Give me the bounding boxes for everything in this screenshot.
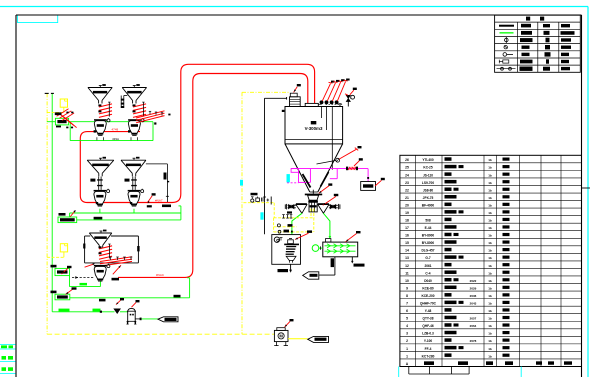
svg-text:2022: 2022 <box>470 279 477 283</box>
svg-text:QHF-46: QHF-46 <box>422 324 434 328</box>
svg-text:JS8-80: JS8-80 <box>423 188 434 192</box>
svg-text:1b: 1b <box>488 203 492 207</box>
svg-text:1b: 1b <box>488 347 492 351</box>
svg-text:4749: 4749 <box>112 127 119 131</box>
svg-text:15: 15 <box>405 241 409 245</box>
svg-text:12: 12 <box>405 264 409 268</box>
svg-text:18: 18 <box>405 219 409 223</box>
svg-text:QTY-38: QTY-38 <box>423 317 434 321</box>
svg-text:Y-48: Y-48 <box>425 309 432 313</box>
svg-text:E-44: E-44 <box>425 226 432 230</box>
svg-text:1: 1 <box>406 347 408 351</box>
svg-text:5: 5 <box>406 317 408 321</box>
svg-text:1b: 1b <box>488 241 492 245</box>
svg-text:3: 3 <box>406 332 408 336</box>
svg-text:1b: 1b <box>488 339 492 343</box>
svg-text:JS-110: JS-110 <box>423 173 433 177</box>
svg-text:23: 23 <box>405 181 409 185</box>
svg-text:Y-100: Y-100 <box>424 339 433 343</box>
svg-text:KCT-280: KCT-280 <box>422 354 435 358</box>
svg-text:2064: 2064 <box>470 324 477 328</box>
svg-text:2036: 2036 <box>470 294 477 298</box>
svg-text:LZB-0.3: LZB-0.3 <box>422 332 434 336</box>
svg-text:1b: 1b <box>488 264 492 268</box>
svg-text:24: 24 <box>405 173 409 177</box>
svg-text:17: 17 <box>405 226 409 230</box>
svg-text:1b: 1b <box>488 332 492 336</box>
svg-text:BF-4000: BF-4000 <box>422 203 435 207</box>
svg-text:1b: 1b <box>488 317 492 321</box>
svg-text:13: 13 <box>405 256 409 260</box>
svg-text:2029: 2029 <box>470 286 477 290</box>
svg-text:KCE-200: KCE-200 <box>421 294 434 298</box>
svg-text:2043: 2043 <box>470 301 477 305</box>
svg-text:14: 14 <box>405 249 409 253</box>
svg-text:2: 2 <box>406 339 408 343</box>
svg-text:19: 19 <box>405 211 409 215</box>
svg-text:10: 10 <box>405 279 409 283</box>
svg-text:1b: 1b <box>488 309 492 313</box>
svg-text:2057: 2057 <box>470 317 477 321</box>
svg-text:YTL400: YTL400 <box>422 158 434 162</box>
svg-text:16: 16 <box>405 234 409 238</box>
svg-text:25: 25 <box>405 166 409 170</box>
svg-text:1b: 1b <box>488 249 492 253</box>
svg-text:M: M <box>279 334 283 339</box>
svg-text:KC-25: KC-25 <box>423 166 432 170</box>
svg-text:BY-8000: BY-8000 <box>422 241 435 245</box>
svg-text:1b: 1b <box>488 196 492 200</box>
svg-text:DLG-457: DLG-457 <box>421 249 434 253</box>
svg-text:1b: 1b <box>488 226 492 230</box>
svg-text:BY-8000: BY-8000 <box>422 234 435 238</box>
svg-text:21: 21 <box>405 196 409 200</box>
svg-text:9: 9 <box>406 286 408 290</box>
svg-text:1b: 1b <box>488 234 492 238</box>
svg-text:7: 7 <box>406 301 408 305</box>
svg-text:26: 26 <box>405 158 409 162</box>
svg-text:D040: D040 <box>424 279 432 283</box>
svg-text:LS9-700: LS9-700 <box>422 181 434 185</box>
svg-text:6: 6 <box>406 309 408 313</box>
svg-text:1b: 1b <box>488 354 492 358</box>
svg-text:1b: 1b <box>488 181 492 185</box>
svg-text:2078: 2078 <box>470 339 477 343</box>
svg-text:1b: 1b <box>488 279 492 283</box>
svg-text:1b: 1b <box>488 301 492 305</box>
svg-text:KCE-80: KCE-80 <box>422 286 434 290</box>
svg-text:1b: 1b <box>488 188 492 192</box>
svg-text:1b: 1b <box>488 286 492 290</box>
svg-text:20: 20 <box>405 203 409 207</box>
svg-text:1b: 1b <box>488 294 492 298</box>
svg-text:C-4: C-4 <box>425 271 430 275</box>
svg-text:JPX-75: JPX-75 <box>423 196 434 200</box>
svg-text:QHHF-70C: QHHF-70C <box>420 301 437 305</box>
svg-text:11: 11 <box>405 271 409 275</box>
svg-text:#NA7: #NA7 <box>155 198 163 202</box>
svg-text:1b: 1b <box>488 271 492 275</box>
svg-text:1b: 1b <box>488 211 492 215</box>
svg-text:1b: 1b <box>488 173 492 177</box>
svg-text:1b: 1b <box>488 219 492 223</box>
svg-text:22: 22 <box>405 188 409 192</box>
svg-text:1b: 1b <box>488 324 492 328</box>
svg-text:FF-4: FF-4 <box>425 347 432 351</box>
svg-text:508: 508 <box>425 219 431 223</box>
svg-text:G-7: G-7 <box>425 256 431 260</box>
svg-text:V-300m3: V-300m3 <box>305 126 323 131</box>
svg-text:1b: 1b <box>488 256 492 260</box>
svg-text:#NAC: #NAC <box>156 273 165 277</box>
svg-text:8: 8 <box>406 294 408 298</box>
svg-text:2061: 2061 <box>424 264 431 268</box>
svg-text:4: 4 <box>406 324 408 328</box>
svg-text:1b: 1b <box>488 158 492 162</box>
svg-text:1b: 1b <box>488 166 492 170</box>
svg-text:1: 1 <box>406 354 408 358</box>
